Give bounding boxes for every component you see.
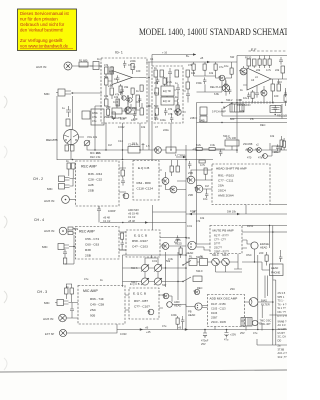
svg-text:REC/PB: REC/PB [46, 138, 58, 142]
svg-text:1.7 V/cm: 1.7 V/cm [175, 153, 185, 157]
wire long mid right [197, 102, 288, 104]
node a8 [185, 237, 187, 239]
svg-text:C10: C10 [277, 80, 282, 84]
svg-text:EQ 12: EQ 12 [163, 99, 171, 103]
svg-text:R22 1.5k: R22 1.5k [90, 155, 101, 159]
svg-text:3C2 ,??: 3C2 ,?? [278, 355, 288, 359]
resistor R19 [186, 82, 190, 89]
svg-text:2SC458: 2SC458 [243, 142, 253, 146]
relay box RL1 [189, 259, 197, 266]
equalizer block EQ1 [161, 86, 174, 96]
svg-text:von www.tonbandwelt.de: von www.tonbandwelt.de [20, 43, 69, 48]
svg-text:R64 - R80: R64 - R80 [137, 181, 151, 185]
svg-text:R1?? - R???: R1?? - R??? [214, 234, 229, 238]
svg-text:47k: 47k [188, 63, 193, 67]
spiral curl mark 5 [4, 358, 7, 370]
svg-text:den Verkauf bestimmt!: den Verkauf bestimmt! [20, 27, 63, 32]
svg-text:R1 680: R1 680 [79, 59, 88, 63]
svg-text:24B: 24B [199, 119, 205, 123]
svg-text:470uF: 470uF [201, 339, 209, 343]
svg-text:33k: 33k [124, 85, 129, 89]
resistor R70 [283, 141, 286, 147]
rec amp assembly A7 [76, 227, 120, 260]
capacitor C34 [228, 87, 231, 94]
wire bottom rail [117, 329, 287, 331]
svg-text:C77 - C111: C77 - C111 [218, 179, 234, 183]
capacitor C57 [138, 96, 141, 104]
wire T1 internal feedback [106, 66, 142, 110]
connector J4 aux jack [59, 314, 67, 322]
wire r60 leads [285, 88, 287, 106]
svg-text:SW-2: SW-2 [226, 98, 233, 102]
head H3 add [167, 302, 173, 308]
svg-text:6.8k: 6.8k [214, 92, 220, 96]
wire right bottom link [257, 339, 287, 345]
capacitor C21 [70, 306, 74, 314]
resistor R21 [253, 59, 257, 66]
connector P4 mic plug [58, 244, 69, 250]
svg-text:R14: R14 [154, 91, 159, 95]
node j106 [105, 149, 106, 150]
svg-text:EXT SP: EXT SP [45, 332, 54, 336]
label parts list A12 [211, 302, 227, 324]
svg-text:C1 C2: C1 C2 [128, 215, 136, 219]
eq block M1 [199, 107, 207, 123]
svg-text:AUX IN: AUX IN [43, 317, 53, 321]
node v178 [177, 281, 178, 282]
head H2 erase [251, 242, 258, 249]
resistor R57 [263, 59, 266, 65]
wire mute top ext [242, 225, 287, 227]
svg-text:REL PLAY: REL PLAY [210, 85, 222, 89]
capacitor C10 [279, 57, 283, 65]
resistor R73 [112, 112, 115, 118]
node ch4 [73, 246, 74, 247]
svg-text:C49 - C58: C49 - C58 [90, 303, 104, 307]
svg-text:AUX IN: AUX IN [44, 229, 54, 233]
resistor R25 [128, 143, 140, 154]
node v165 [165, 267, 166, 268]
svg-text:2SB7: 2SB7 [211, 316, 218, 320]
node erase [272, 231, 274, 233]
capacitor C38 [276, 144, 279, 151]
node y150 b [122, 149, 123, 150]
svg-text:ADD MIX: ADD MIX [128, 208, 139, 212]
capacitor C12 [121, 178, 125, 186]
op-amp U2 [243, 68, 277, 90]
node T1a [121, 92, 122, 93]
wire T1 output [139, 77, 146, 79]
resistor R5 [104, 63, 109, 74]
svg-text:CH - 4: CH - 4 [34, 218, 44, 222]
wire g leads [119, 239, 126, 250]
wire +B rail under head shift [186, 210, 246, 216]
component block K1 [82, 109, 104, 125]
svg-text:D106: D106 [211, 311, 218, 315]
svg-text:REC/PB SW: REC/PB SW [112, 116, 127, 120]
wire chain main [95, 149, 237, 151]
wire eq3 out [159, 295, 165, 308]
wire monitor row [222, 108, 287, 116]
svg-text:HE2D: HE2D [175, 242, 182, 246]
svg-text:D???: D??? [214, 242, 221, 246]
transistor Q14 [141, 264, 149, 271]
svg-text:T6 - 4 ?: T6 - 4 ? [278, 302, 287, 306]
wire ch3 to box [66, 294, 78, 318]
svg-text:C1 C2: C1 C2 [103, 219, 111, 223]
node y102 a [221, 102, 222, 103]
svg-text:A28: A28 [88, 183, 94, 187]
wire f leads [206, 174, 207, 191]
resistor R67 [176, 318, 179, 324]
connector J3 aux jack [59, 227, 67, 235]
svg-text:Dieses Servicemanual ist: Dieses Servicemanual ist [20, 11, 70, 16]
svg-text:+B: +B [178, 326, 182, 330]
transistor Q12 [194, 185, 202, 193]
wire right joiner [187, 77, 189, 103]
spiral curl mark 1 [4, 96, 7, 108]
label parts list A11 [134, 299, 150, 309]
svg-text:N6 / ??: N6 / ?? [278, 310, 287, 314]
node T1b [127, 96, 128, 97]
capacitor C4 [126, 95, 130, 105]
resistor R58 [268, 59, 271, 65]
switch S6 [222, 258, 230, 266]
wire top right feed [237, 55, 287, 57]
wire right pair vertical [273, 280, 276, 345]
wire chain joins [193, 149, 225, 150]
node rail mid5 [272, 301, 274, 303]
svg-text:4.7k: 4.7k [266, 68, 272, 72]
capacitor C2 [62, 106, 71, 117]
capacitor C31 [116, 75, 119, 82]
svg-text:2SA: 2SA [218, 184, 225, 188]
wire switch drops [216, 266, 243, 272]
transistor Q18 [148, 309, 154, 315]
node x269 [269, 225, 270, 226]
svg-text:47u: 47u [92, 119, 97, 123]
resistor R41 [63, 258, 67, 264]
wire ch3 top chain [66, 284, 72, 288]
resistor R11 [136, 95, 140, 102]
wire t2 misc [165, 77, 172, 115]
arrow monitor [236, 99, 242, 101]
svg-text:4.7k: 4.7k [200, 163, 206, 167]
arrowhead bus right [207, 61, 210, 63]
svg-text:SW-4: SW-4 [212, 253, 219, 257]
wire r59 leads [252, 90, 254, 103]
service stamp box [18, 9, 77, 51]
wire ch2 vertical [69, 169, 73, 178]
spiral curl mark 3 [4, 216, 7, 228]
amplifier assembly box A1 [101, 58, 147, 123]
wire mid bus [95, 105, 152, 107]
wire vertical mic bus [56, 96, 58, 160]
transistor Q11 [186, 176, 194, 184]
wire vertical mid bus [196, 103, 198, 245]
transistor Q10 [169, 186, 177, 193]
svg-text:8.2k: 8.2k [196, 143, 202, 147]
label parts list A4 [88, 172, 102, 193]
svg-text:1M: 1M [205, 184, 209, 188]
svg-text:MODEL 1400, 1400U STANDARD SCH: MODEL 1400, 1400U STANDARD SCHEMATIC [139, 27, 287, 37]
svg-text:1.5: 1.5 [146, 144, 150, 148]
wire T2 out [183, 91, 186, 112]
capacitor C53 [164, 108, 167, 116]
bottom page divider line [0, 370, 287, 372]
node mid rail [185, 267, 187, 269]
wire add mix rail [100, 222, 186, 224]
arrow add mix [145, 221, 148, 223]
svg-text:MIC: MIC [42, 245, 48, 249]
svg-text:T5 1 -: T5 1 - [278, 299, 285, 303]
node y122 a [221, 122, 222, 123]
svg-text:AUX IN: AUX IN [44, 199, 54, 203]
svg-text:10k: 10k [104, 94, 109, 98]
svg-text:47u: 47u [253, 331, 258, 335]
resistor R32 [121, 170, 125, 176]
inductor L1 bias filter [249, 298, 258, 307]
svg-text:2SB: 2SB [88, 189, 94, 193]
svg-text:20.2: 20.2 [132, 142, 138, 146]
svg-text:47k: 47k [240, 109, 245, 113]
resistor R9 [105, 99, 109, 106]
capacitor C37 [219, 149, 222, 156]
wire t1 misc [121, 84, 140, 107]
resistor R1 [79, 59, 88, 68]
capacitor C50 [274, 105, 277, 113]
wire ext speaker link [67, 330, 117, 334]
wire r63 leads [281, 136, 283, 150]
capacitor C56 [224, 81, 227, 89]
svg-text:EQ 7R: EQ 7R [163, 89, 171, 93]
svg-text:AC 3.3: AC 3.3 [278, 323, 286, 327]
svg-text:3T.6B: 3T.6B [278, 347, 285, 351]
svg-text:2SC: 2SC [230, 287, 235, 291]
wire join y76 [194, 70, 216, 76]
capacitor C7 [176, 84, 180, 94]
svg-text:REC AMP: REC AMP [81, 165, 97, 169]
svg-text:220u: 220u [163, 128, 169, 132]
svg-text:SW-3: SW-3 [223, 134, 230, 138]
svg-text:100: 100 [136, 69, 141, 73]
svg-text:HEAD: HEAD [260, 246, 267, 250]
svg-text:100: 100 [274, 94, 279, 98]
svg-text:E. Q C. B: E. Q C. B [133, 292, 146, 296]
svg-text:0.01: 0.01 [187, 224, 193, 228]
label parts list A7 [85, 237, 99, 258]
transistor Q3 [239, 68, 247, 75]
capacitor C40 [121, 240, 124, 247]
node rail mid2 [185, 254, 187, 256]
wire vert x178 [177, 252, 179, 300]
svg-text:SW-5: SW-5 [222, 253, 229, 257]
connector J1 aux jack [64, 62, 72, 70]
wire hp link [242, 262, 273, 298]
capacitor C51 [188, 161, 191, 169]
wire chain feed left [94, 106, 96, 150]
capacitor C13 [97, 206, 101, 214]
svg-text:10k: 10k [270, 134, 275, 138]
svg-text:HEAD SHIFT PB AMP: HEAD SHIFT PB AMP [216, 167, 247, 171]
wire right vertical main [236, 56, 238, 154]
svg-text:2SB? - R2??: 2SB? - R2?? [214, 250, 229, 254]
svg-text:C105 - C113: C105 - C113 [211, 307, 226, 311]
node y150 a [139, 149, 140, 150]
label ADD HEAD [174, 300, 181, 308]
svg-text:47u: 47u [162, 324, 167, 328]
svg-text:2SC4: 2SC4 [218, 189, 226, 193]
switch block SB2 [230, 104, 244, 112]
svg-text:47u: 47u [224, 338, 229, 342]
rec amp assembly A4 [76, 161, 120, 206]
svg-text:AMS: AMS [175, 238, 181, 242]
svg-text:E. Q C. B: E. Q C. B [134, 234, 147, 238]
resistor R17 [154, 104, 159, 115]
capacitor C36 [284, 90, 287, 97]
resistor R71 [199, 160, 205, 163]
capacitor C8 [186, 91, 190, 99]
svg-text:REC AMP: REC AMP [79, 230, 95, 234]
svg-text:68k: 68k [109, 70, 114, 74]
switch S2 [222, 80, 229, 95]
resistor R65 [121, 233, 124, 239]
wire left col to chain [70, 151, 72, 160]
node rail c [185, 159, 187, 161]
switch S7 [182, 261, 191, 266]
resistor R53 [192, 64, 195, 70]
eq assembly A11 [129, 288, 159, 319]
svg-text:PB: PB [250, 117, 254, 121]
resistor R3 [66, 119, 70, 126]
svg-text:MIC 16k: MIC 16k [90, 151, 100, 155]
svg-text:10u: 10u [203, 197, 208, 201]
node bus149 a [148, 77, 150, 79]
svg-text:25V: 25V [240, 331, 245, 335]
resistor R26 [166, 147, 176, 153]
resistor R64 [204, 168, 207, 174]
svg-text:C60 - C63: C60 - C63 [85, 243, 99, 247]
resistor R51 [131, 64, 134, 70]
resistor R78 [163, 78, 166, 84]
arrow +B left [140, 326, 149, 331]
resistor R61 [196, 148, 202, 151]
wire head to rec amp [79, 137, 96, 150]
resistor R72 [107, 109, 110, 115]
node c50 [275, 114, 276, 115]
capacitor C5 [128, 63, 136, 69]
wire micamp bottom drop [116, 324, 118, 330]
svg-text:10k: 10k [191, 71, 196, 75]
resistor R6 [110, 67, 114, 74]
wire k leads [266, 252, 268, 266]
wire right chain joins [267, 138, 284, 156]
wire vert x269 [269, 226, 271, 249]
wire drops from bus y62 [194, 62, 216, 64]
svg-text:2SB: 2SB [188, 171, 193, 175]
svg-text:9NAB ?: 9NAB ? [278, 319, 287, 323]
wire box A6 drop [245, 205, 247, 215]
label parts list A9 [214, 234, 229, 254]
capacitor C52 [133, 111, 136, 119]
label BIAS FILTER [261, 299, 270, 307]
wire aux to amp [72, 65, 102, 67]
resistor R60 [284, 95, 287, 101]
connector J2 aux jack [62, 196, 70, 204]
eq assembly A8 [126, 230, 160, 257]
wire ch4 to box [67, 229, 76, 247]
resistor R13 [154, 66, 158, 77]
potentiometer VR1 [84, 140, 90, 146]
svg-text:DD: DD [278, 338, 282, 342]
capacitor C6 [168, 68, 172, 78]
wire bus x152 lower [151, 123, 153, 160]
svg-text:1M: 1M [108, 143, 112, 147]
wire drop T2a [139, 123, 141, 147]
svg-text:ADD MIX OSC AMP: ADD MIX OSC AMP [210, 297, 238, 301]
svg-text:SW: SW [230, 55, 235, 59]
capacitor C35 [247, 92, 250, 99]
svg-text:HEAD: HEAD [174, 304, 181, 308]
label ERASE HEAD [260, 242, 269, 250]
wire bus x186 [185, 145, 187, 331]
svg-text:IG- 1: IG- 1 [115, 51, 123, 55]
transistor Q16 [141, 278, 149, 285]
resistor R18 [186, 70, 190, 77]
resistor R34 [176, 166, 180, 172]
wire bus x149 [148, 62, 150, 150]
resistor R7 [105, 78, 109, 85]
wire box A5 out [159, 170, 162, 186]
svg-text:E.F: E.F [251, 48, 256, 52]
label parts list A6 [218, 174, 234, 198]
wire erase drop [242, 232, 273, 255]
svg-text:3.3k: 3.3k [168, 257, 174, 261]
wire box1 bottom drop [99, 206, 186, 223]
svg-text:VOL 10k: VOL 10k [87, 135, 98, 139]
node rail b [122, 159, 124, 161]
wire q21 link [163, 296, 172, 302]
svg-text:2SB: 2SB [188, 193, 193, 197]
spiral curl mark 2 [4, 146, 7, 158]
wire t1 low joins [108, 106, 114, 120]
switch S8 [182, 276, 202, 282]
wire T1 r51 lead [132, 70, 134, 74]
svg-text:2N 3.5: 2N 3.5 [278, 291, 286, 295]
wire drop T2b [170, 123, 172, 150]
svg-text:PB: PB [188, 310, 192, 314]
connector J5 ext speaker [59, 329, 66, 336]
wire switch row [186, 254, 242, 269]
svg-text:R6? - R8?: R6? - R8? [134, 299, 148, 303]
wire drop T1a [105, 123, 107, 150]
node rail a [72, 159, 74, 161]
resistor R75 [230, 68, 233, 74]
capacitor C23 electrolytic [224, 330, 236, 342]
wire dashed top right [249, 50, 288, 52]
svg-text:600: 600 [230, 117, 235, 121]
svg-text:220: 220 [259, 251, 264, 255]
resistor R31 [72, 163, 76, 169]
wire heads link [172, 305, 207, 308]
svg-text:905: 905 [90, 314, 95, 318]
wire t1 bottom joins [117, 104, 131, 111]
wire headshift bottom edge ext [270, 204, 287, 206]
svg-text:24B C: 24B C [190, 116, 197, 120]
label PB HEAD 2 [188, 310, 195, 318]
headphone box HP1 [270, 264, 284, 276]
wire bus x282 right [281, 104, 283, 119]
